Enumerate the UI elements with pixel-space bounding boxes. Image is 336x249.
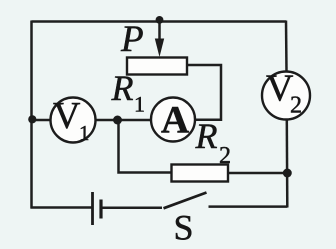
wire switch-to-right xyxy=(209,205,288,208)
svg-text:S: S xyxy=(174,208,194,248)
rheostat P body xyxy=(127,58,187,75)
svg-text:2: 2 xyxy=(219,143,231,169)
svg-text:R: R xyxy=(111,68,134,108)
node left junction xyxy=(28,115,36,123)
node right junction xyxy=(283,169,292,178)
wire top xyxy=(32,20,287,23)
voltmeter V2 xyxy=(262,68,310,120)
wire left xyxy=(30,21,33,209)
svg-text:A: A xyxy=(161,99,189,142)
wire bottom-left xyxy=(31,206,93,209)
wire node-down-to-R2 xyxy=(119,120,172,173)
svg-text:P: P xyxy=(120,19,144,60)
svg-text:2: 2 xyxy=(290,93,302,119)
wire V1-to-node xyxy=(95,119,152,122)
svg-text:1: 1 xyxy=(79,121,90,145)
svg-text:R: R xyxy=(195,116,218,156)
rheostat wiper arrow xyxy=(155,22,164,58)
wire A-right xyxy=(187,65,222,120)
label R1 xyxy=(111,68,146,117)
wire R2-to-right xyxy=(228,172,288,175)
label R2 xyxy=(195,116,232,169)
wire right-lower xyxy=(286,120,289,208)
wire right-upper xyxy=(285,21,288,72)
switch S xyxy=(164,193,207,209)
resistor R2 body xyxy=(172,165,229,182)
ammeter A xyxy=(151,98,195,142)
voltmeter V1 xyxy=(51,95,96,145)
node center junction xyxy=(113,116,122,125)
wire V1 row left xyxy=(32,119,52,122)
svg-text:V: V xyxy=(53,95,81,137)
battery xyxy=(93,192,102,225)
node top junction xyxy=(156,16,164,24)
wire battery-to-switch xyxy=(102,207,163,210)
svg-text:1: 1 xyxy=(134,92,145,117)
